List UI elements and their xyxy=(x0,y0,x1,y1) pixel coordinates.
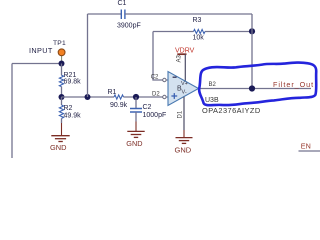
ground GND under R2 xyxy=(51,123,69,142)
svg-text:C2: C2 xyxy=(151,74,159,80)
svg-text:D1: D1 xyxy=(178,110,184,118)
junction node R1/C2 xyxy=(133,94,139,100)
svg-text:R3: R3 xyxy=(193,17,202,24)
wire TP1 node to R21 xyxy=(61,64,63,76)
resistor R2 xyxy=(59,97,81,123)
svg-text:69.8k: 69.8k xyxy=(64,79,82,86)
svg-text:U3B: U3B xyxy=(205,97,219,104)
svg-text:GND: GND xyxy=(175,146,192,155)
ground GND under op-amp xyxy=(176,138,193,144)
svg-text:49.9k: 49.9k xyxy=(64,112,82,119)
test point TP1 xyxy=(58,49,65,61)
junction node R21/R2/wire xyxy=(59,94,65,100)
svg-text:R1: R1 xyxy=(108,89,117,96)
svg-text:3900pF: 3900pF xyxy=(117,23,141,30)
svg-text:B2: B2 xyxy=(209,82,217,88)
svg-text:10k: 10k xyxy=(193,35,205,42)
capacitor C2 xyxy=(130,97,166,122)
svg-text:V-: V- xyxy=(182,90,187,96)
svg-text:1000pF: 1000pF xyxy=(143,112,167,119)
svg-text:R2: R2 xyxy=(64,105,73,112)
wire R21 to mid node xyxy=(61,87,63,97)
output wire xyxy=(199,88,312,90)
wire feedback R3 horizontal xyxy=(153,31,194,33)
svg-text:C1: C1 xyxy=(118,0,127,7)
svg-text:V+: V+ xyxy=(181,81,188,87)
annotation freehand blue loop xyxy=(199,63,316,106)
svg-text:90.9k: 90.9k xyxy=(110,102,128,109)
junction node output/feedback xyxy=(249,85,255,91)
svg-text:Filter_Out: Filter_Out xyxy=(273,80,314,89)
wire INPUT horizontal xyxy=(12,63,62,65)
svg-text:TP1: TP1 xyxy=(53,40,66,47)
pin D1 wire xyxy=(183,97,185,130)
junction node C1 leg xyxy=(85,94,91,100)
wire C1 left leg vertical xyxy=(87,14,89,97)
capacitor C1 xyxy=(117,0,141,30)
pin A3 label xyxy=(176,54,182,62)
pin C2 stub and label xyxy=(151,74,168,81)
resistor R21 xyxy=(59,72,81,87)
svg-text:INPUT: INPUT xyxy=(29,46,53,55)
wire C1 to right xyxy=(125,13,252,15)
power port VDRV xyxy=(175,48,195,81)
op-amp U3B triangle xyxy=(168,72,199,106)
pin D2 stub and label xyxy=(152,91,168,98)
wire left vertical to bottom edge xyxy=(11,64,13,159)
wire mid horizontal to R1 xyxy=(62,96,115,98)
svg-text:OPA2376AIYZD: OPA2376AIYZD xyxy=(202,106,261,115)
wire EN xyxy=(299,150,320,152)
svg-text:C2: C2 xyxy=(143,104,152,111)
svg-text:A3: A3 xyxy=(176,54,182,62)
wire feedback left corner vertical xyxy=(153,32,163,81)
pin D1 label xyxy=(178,110,184,118)
junction node feedback/top xyxy=(249,28,255,34)
svg-text:EN: EN xyxy=(301,142,311,151)
junction node input/TP1 xyxy=(59,61,65,67)
resistor R3 xyxy=(193,17,206,42)
svg-text:GND: GND xyxy=(126,139,142,148)
resistor R1 xyxy=(108,89,128,109)
ground GND under C2 xyxy=(127,122,144,138)
wire R1 to opamp xyxy=(124,96,163,98)
svg-text:GND: GND xyxy=(50,143,66,152)
wire right vertical C1/feedback to output xyxy=(251,14,253,89)
svg-text:D2: D2 xyxy=(152,91,160,97)
wire top to C1 xyxy=(88,13,122,15)
